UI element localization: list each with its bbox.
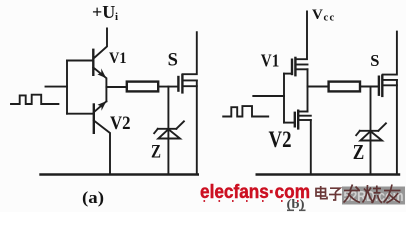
wire Vcc to V1 drain <box>296 12 307 60</box>
svg-text:S: S <box>168 51 178 71</box>
ground rail (b) <box>257 173 399 175</box>
transistor V2 collector wire to rail <box>94 121 110 175</box>
output wire node to resistor (a) <box>106 86 126 88</box>
mosfet S (b) source stub <box>383 84 397 86</box>
svg-text:V1: V1 <box>109 50 127 67</box>
watermark chinese char shao <box>363 185 383 203</box>
transistor V2 base bar <box>93 105 95 133</box>
resistor R (b) <box>329 82 360 92</box>
svg-text:V2: V2 <box>110 113 131 134</box>
svg-text:V1: V1 <box>261 51 280 71</box>
transistor V1 base bar <box>92 50 94 75</box>
mosfet V2 (b) gate lead <box>284 122 295 124</box>
watermark chinese char fa <box>344 185 361 203</box>
mosfet V2 (b) body stub <box>299 115 311 117</box>
base box top rail <box>67 60 93 62</box>
mosfet V2 (b) gate bar <box>294 113 296 127</box>
svg-text:V2: V2 <box>269 127 292 153</box>
transistor V2 emitter with arrow <box>94 101 107 112</box>
output wire to resistor (b) <box>308 86 329 88</box>
svg-text:V: V <box>312 7 323 23</box>
svg-text:Z: Z <box>151 143 161 163</box>
square wave symbol (a) <box>11 95 58 104</box>
watermark red underticks <box>204 200 299 202</box>
mosfet V2 (b) drain stub <box>299 111 308 113</box>
mosfet V1 (b) gate bar <box>291 60 293 74</box>
watermark chinese char dian <box>316 186 327 199</box>
mosfet V2 (b) source stub <box>299 119 311 121</box>
wire node to zener (b) <box>370 87 372 175</box>
base box left vertical <box>66 61 68 114</box>
mosfet V1 (b) gate lead <box>284 73 292 75</box>
mosfet S (a) source wire to rail <box>196 80 198 174</box>
svg-text:i: i <box>115 11 118 23</box>
mosfet S (a) body stub <box>183 79 197 81</box>
mosfet S (a) source stub <box>183 85 197 87</box>
square wave symbol (b) <box>223 106 268 116</box>
mosfet S (a) gate bar <box>177 77 179 91</box>
svg-text:Z: Z <box>353 140 365 164</box>
mosfet S (b) gate bar <box>378 77 380 95</box>
mosfet V2 (b) source wire to rail <box>310 120 312 175</box>
input stub wire (a) <box>46 86 68 88</box>
svg-text:(a): (a) <box>82 188 104 207</box>
wire supply to V1 collector <box>94 29 108 59</box>
zener diode Z (a) <box>154 121 184 138</box>
wire resistor to gate (b) <box>360 86 379 88</box>
ground rail (a) <box>41 173 198 175</box>
base box bottom rail <box>67 113 94 115</box>
watermark chinese char you <box>384 185 401 204</box>
mosfet V1 (b) source stub <box>296 68 308 70</box>
mosfet S (a) drain stub and terminal <box>183 32 197 74</box>
mosfet S (b) source wire to rail <box>396 80 398 175</box>
svg-text:elecfans·com: elecfans·com <box>200 182 310 203</box>
zener diode Z (b) <box>356 123 386 140</box>
mosfet S (b) channel bar <box>381 76 383 96</box>
mosfet V2 (b) channel bar <box>297 111 299 129</box>
transistor V1 emitter with arrow <box>93 68 106 102</box>
caption (b) underline dashes <box>287 210 294 212</box>
wire resistor to gate (a) <box>158 86 178 88</box>
gate bus wire (b) <box>283 74 285 123</box>
mosfet V1 (b) channel bar <box>294 58 296 75</box>
svg-text:+U: +U <box>92 2 115 22</box>
mosfet S (b) drain stub and terminal <box>383 32 397 75</box>
svg-text:cc: cc <box>324 13 336 24</box>
mosfet S (a) channel bar <box>181 75 183 93</box>
output node vertical wire (b) <box>307 69 309 111</box>
input wire (b) <box>253 95 284 97</box>
resistor R (a) <box>127 82 158 92</box>
watermark chinese char zi <box>329 188 342 200</box>
wire node to zener (a) <box>167 87 169 175</box>
svg-text:S: S <box>370 51 379 70</box>
mosfet S (b) body stub <box>383 79 397 81</box>
mosfet V1 (b) body stub <box>296 64 308 66</box>
watermark grey box 52RD.com <box>342 187 405 205</box>
